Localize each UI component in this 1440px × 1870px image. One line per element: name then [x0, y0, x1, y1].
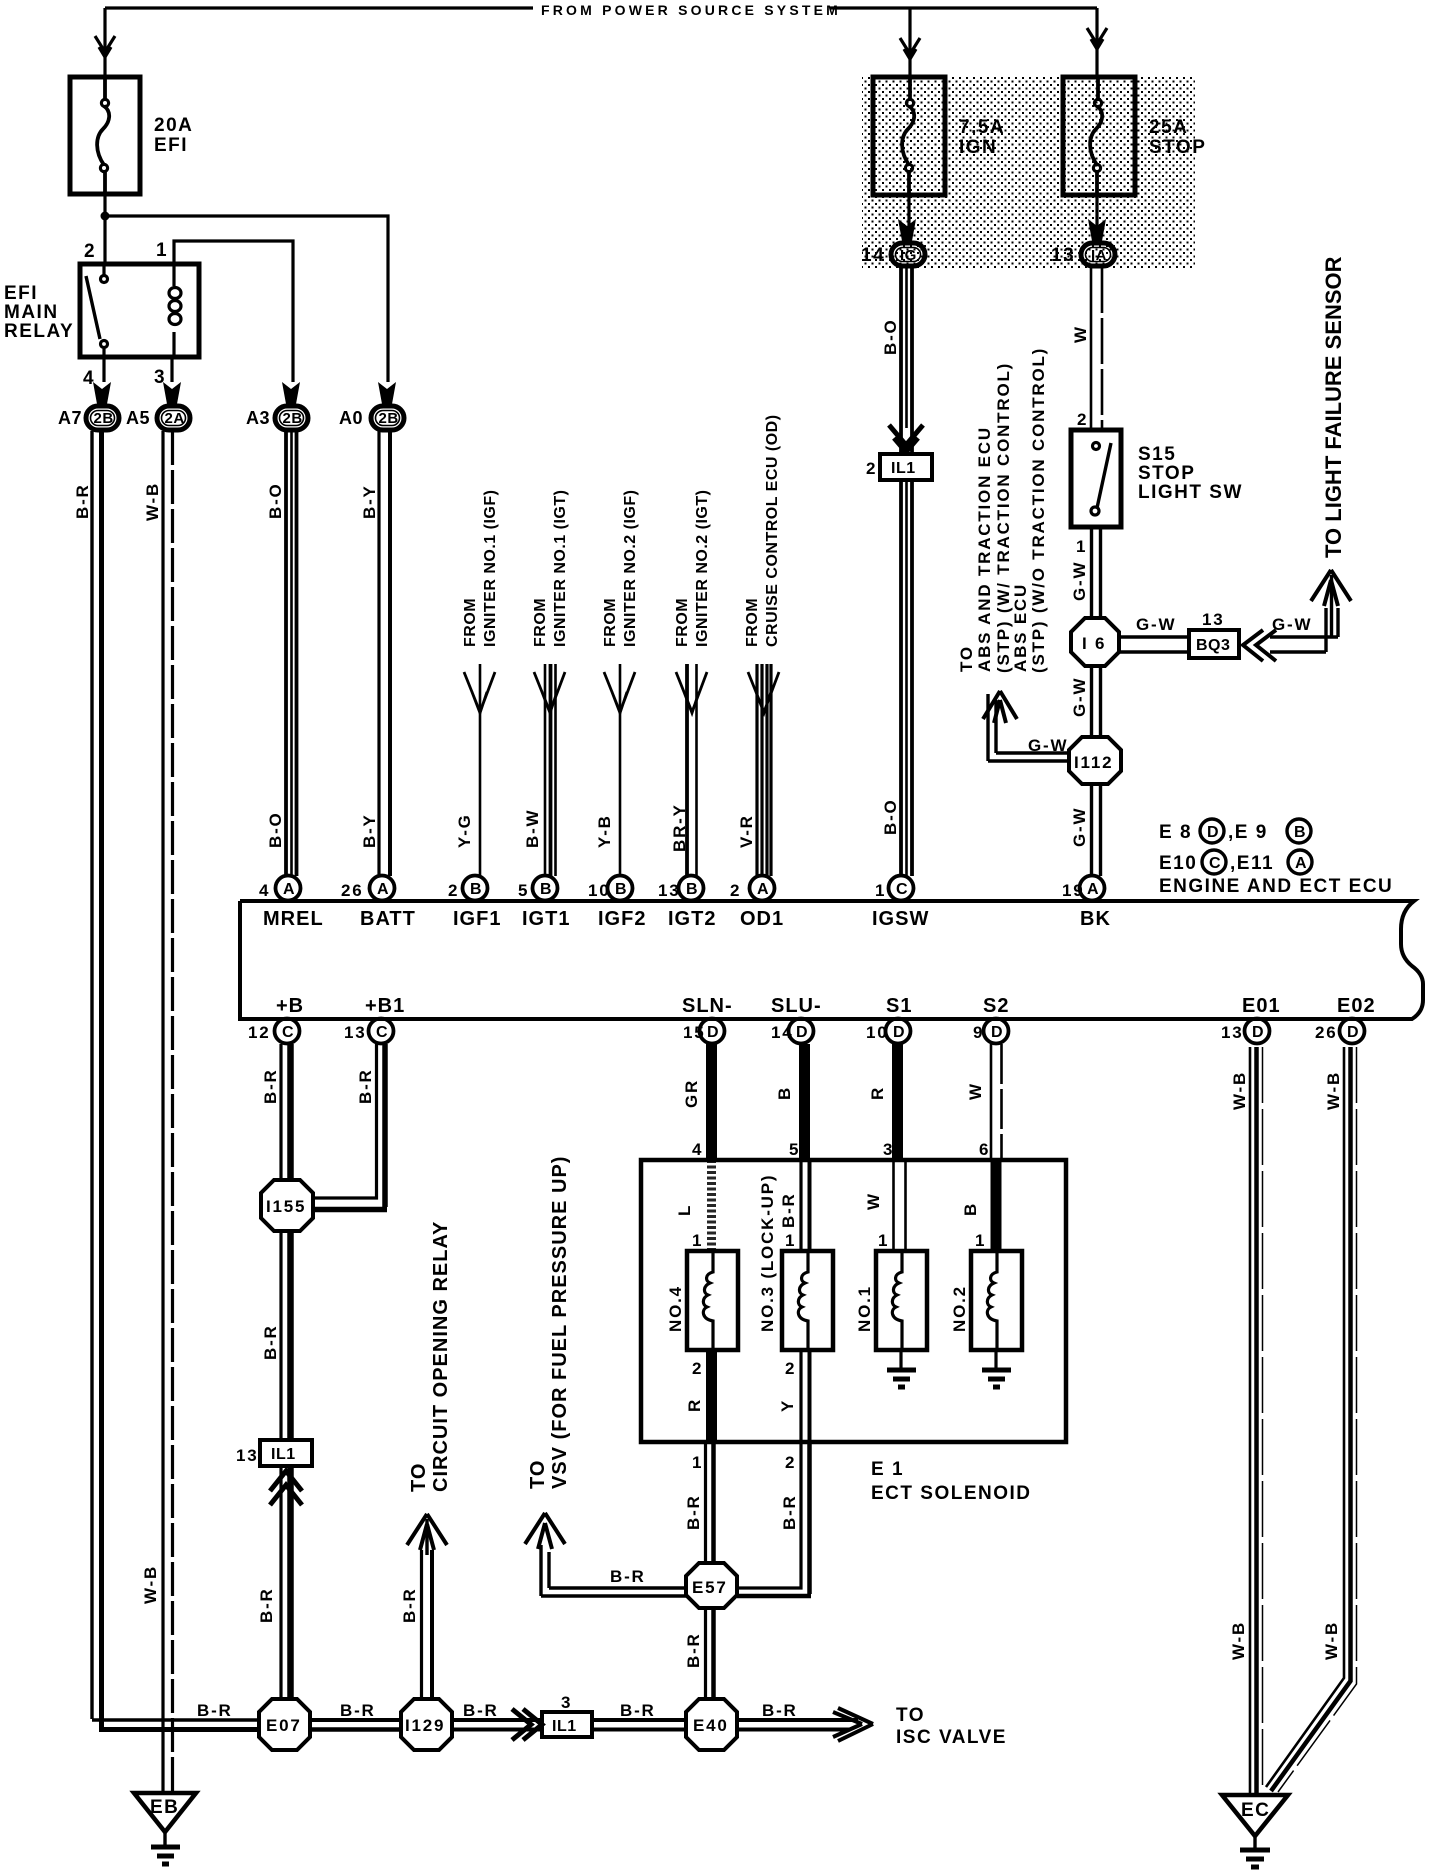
connector A7 2B: [58, 406, 119, 430]
svg-text:B-R: B-R: [257, 1587, 276, 1623]
svg-text:W: W: [966, 1082, 985, 1100]
svg-text:B: B: [961, 1202, 980, 1216]
label FROM IGNITER NO.1 (IGF): [462, 490, 499, 647]
svg-text:A: A: [283, 881, 295, 898]
svg-text:A0: A0: [339, 408, 363, 428]
junction E40: [686, 1699, 737, 1750]
ECU pin 15 D SLN-: [682, 995, 733, 1044]
ECU pin 5 B IGT1: [518, 876, 570, 931]
arrow into A3: [282, 382, 300, 404]
connector 14 IG: [861, 243, 925, 266]
wire from igniter no.2 (IGT) to IGT2: [676, 664, 707, 876]
svg-text:D: D: [796, 1024, 808, 1041]
svg-text:MREL: MREL: [263, 908, 324, 930]
svg-text:1: 1: [975, 1231, 986, 1250]
svg-text:TO: TO: [957, 645, 976, 672]
wire B: SLU- down into box to solenoid NO.3: [801, 1044, 810, 1251]
svg-text:E 8: E 8: [1159, 822, 1192, 843]
svg-text:5: 5: [789, 1140, 800, 1159]
svg-text:BQ3: BQ3: [1196, 637, 1230, 654]
relay EFI MAIN RELAY: [80, 240, 199, 389]
svg-text:STOP: STOP: [1138, 463, 1195, 484]
ground EB: [134, 1793, 196, 1864]
wire from cruise control ecu (OD) to OD1: [748, 664, 779, 876]
svg-text:1: 1: [156, 240, 168, 261]
junction I155: [261, 1180, 313, 1231]
label FROM CRUISE CONTROL ECU (OD): [744, 414, 781, 647]
svg-text:S1: S1: [886, 995, 912, 1017]
fuse 20A EFI: [70, 77, 140, 194]
label FROM IGNITER NO.1 (IGT): [532, 490, 569, 647]
svg-text:STOP: STOP: [1149, 137, 1206, 158]
label 25A STOP: [1149, 117, 1206, 158]
svg-text:IGNITER NO.2 (IGT): IGNITER NO.2 (IGT): [694, 490, 711, 647]
svg-text:E 1: E 1: [871, 1459, 904, 1480]
ECU pin 14 D SLU-: [771, 995, 822, 1044]
wire G-W: I6 to I112: [1092, 666, 1101, 737]
wire B-R: E57 down to E40: [706, 1608, 714, 1699]
arrow into 14 IG: [898, 219, 916, 241]
svg-text:7.5A: 7.5A: [959, 117, 1005, 138]
connector 2 IL1 (IGSW): [866, 454, 932, 480]
junction I129: [401, 1699, 452, 1750]
svg-text:B-R: B-R: [684, 1632, 703, 1668]
svg-text:B-R: B-R: [340, 1701, 376, 1720]
wire W-B: A5 down to ground EB: [163, 431, 173, 1792]
svg-text:W-B: W-B: [1229, 1621, 1248, 1660]
svg-text:A: A: [1087, 881, 1099, 898]
svg-text:5: 5: [518, 881, 529, 900]
svg-text:IGF2: IGF2: [598, 908, 646, 930]
svg-text:1: 1: [692, 1231, 703, 1250]
svg-text:1: 1: [878, 1231, 889, 1250]
svg-text:B-O: B-O: [266, 811, 285, 848]
svg-text:G-W: G-W: [1070, 677, 1089, 717]
svg-text:EFI: EFI: [4, 283, 38, 304]
svg-text:13: 13: [1051, 245, 1075, 266]
ECU pin 26 D E02: [1315, 995, 1376, 1044]
solenoid NO.1: [876, 1251, 927, 1350]
arrow into A5: [163, 382, 181, 404]
ECU pin 2 B IGF1: [448, 876, 501, 931]
wire B-Y: A0 down to ECU pin BATT: [379, 431, 390, 876]
wire R: NO.4 down out of box: [706, 1350, 717, 1442]
svg-text:ECT SOLENOID: ECT SOLENOID: [871, 1483, 1032, 1504]
ECU box ENGINE AND ECT ECU: [240, 901, 1423, 1019]
svg-text:20A: 20A: [154, 115, 193, 136]
svg-text:IL1: IL1: [552, 1718, 577, 1735]
label TO ISC VALVE: [896, 1705, 1007, 1748]
svg-text:B-R: B-R: [356, 1068, 375, 1104]
svg-text:E10: E10: [1159, 853, 1197, 874]
svg-text:BK: BK: [1080, 908, 1111, 930]
ECU pin 10 B IGF2: [588, 876, 646, 931]
svg-text:C: C: [1209, 855, 1221, 872]
svg-text:GR: GR: [682, 1079, 701, 1108]
svg-text:ENGINE AND ECT ECU: ENGINE AND ECT ECU: [1159, 876, 1393, 897]
svg-text:B: B: [1294, 824, 1306, 841]
svg-text:FROM: FROM: [532, 598, 549, 647]
svg-text:6: 6: [979, 1140, 990, 1159]
svg-text:D: D: [893, 1024, 905, 1041]
wire B-R: ECU +B down to junction I155: [281, 1044, 291, 1180]
svg-text:G-W: G-W: [1028, 736, 1068, 755]
svg-text:BATT: BATT: [360, 908, 416, 930]
svg-text:NO.1: NO.1: [855, 1285, 874, 1332]
svg-text:B-R: B-R: [463, 1701, 499, 1720]
wire GR: SLN- down into box to solenoid NO.4: [706, 1044, 717, 1251]
svg-text:B-R: B-R: [762, 1701, 798, 1720]
svg-text:B-R: B-R: [780, 1494, 799, 1530]
svg-text:IA: IA: [1091, 247, 1107, 264]
wire B-R: E40 right to ISC valve arrow: [737, 1708, 873, 1741]
wire B-R: E07 up to 13 IL1 with chevron arrow: [270, 1468, 302, 1699]
svg-text:26: 26: [1315, 1023, 1338, 1042]
wire from igniter no.1 (IGT) to IGT1: [534, 664, 565, 876]
svg-text:W-B: W-B: [143, 482, 162, 521]
wire B-R: I129 up to circuit opening relay arrow: [407, 1514, 447, 1699]
svg-text:2: 2: [730, 881, 741, 900]
svg-text:IGNITER NO.2 (IGF): IGNITER NO.2 (IGF): [622, 490, 639, 647]
svg-text:2B: 2B: [94, 410, 114, 427]
svg-text:BR-Y: BR-Y: [670, 803, 689, 852]
svg-text:VSV (FOR FUEL PRESSURE UP): VSV (FOR FUEL PRESSURE UP): [549, 1156, 571, 1489]
svg-text:B-R: B-R: [73, 483, 92, 519]
wire: STOP fuse to connector 13 IA: [1095, 195, 1098, 242]
svg-text:G-W: G-W: [1272, 615, 1312, 634]
svg-text:D: D: [1252, 1024, 1264, 1041]
wire G-W from light failure sensor into BQ3 with chevrons: [1243, 570, 1351, 661]
wire W-B: E01 down to ground EC: [1250, 1047, 1263, 1795]
svg-text:1: 1: [875, 881, 886, 900]
svg-text:R: R: [685, 1398, 704, 1412]
wire: relay pin3 to connector A5: [170, 357, 173, 382]
svg-text:SLU-: SLU-: [771, 995, 822, 1017]
svg-text:D: D: [1207, 824, 1219, 841]
svg-text:S15: S15: [1138, 444, 1176, 465]
svg-text:W-B: W-B: [1230, 1071, 1249, 1110]
svg-text:A: A: [377, 881, 389, 898]
label FROM IGNITER NO.2 (IGT): [674, 490, 711, 647]
wire: IGN fuse to connector 14 IG: [907, 195, 910, 242]
wire W: 13 IA down to switch S15: [1091, 267, 1102, 430]
wire B-R: E57 left to VSV arrow: [525, 1513, 686, 1596]
svg-text:2: 2: [785, 1453, 796, 1472]
svg-text:I 6: I 6: [1082, 634, 1106, 653]
svg-text:26: 26: [341, 881, 364, 900]
svg-text:2: 2: [84, 241, 96, 262]
svg-text:13: 13: [1202, 610, 1225, 629]
svg-text:IG: IG: [900, 247, 917, 264]
svg-text:OD1: OD1: [740, 908, 784, 930]
svg-text:IGT1: IGT1: [522, 908, 570, 930]
svg-text:I129: I129: [405, 1716, 445, 1735]
svg-text:L: L: [675, 1204, 694, 1216]
junction E57: [686, 1563, 737, 1608]
wire R: S1 down into box to solenoid NO.1: [894, 1044, 906, 1251]
svg-text:12: 12: [248, 1023, 271, 1042]
svg-text:,E11: ,E11: [1230, 853, 1274, 874]
svg-text:IL1: IL1: [891, 460, 916, 477]
svg-text:13: 13: [344, 1023, 367, 1042]
solenoid NO.3 (LOCK-UP): [782, 1251, 833, 1350]
svg-text:2: 2: [448, 881, 459, 900]
wire B-R: I129 to connector 3 IL1 with chevrons: [452, 1709, 542, 1740]
svg-text:EFI: EFI: [154, 135, 188, 156]
wire: relay pin4 to connector A7: [102, 357, 105, 382]
svg-text:W: W: [864, 1192, 883, 1210]
svg-text:I155: I155: [266, 1197, 306, 1216]
wire G-W: I112 down to ECU pin BK: [1092, 784, 1101, 876]
svg-text:G-W: G-W: [1070, 561, 1089, 601]
connector BQ3: [1189, 630, 1239, 658]
svg-text:ISC VALVE: ISC VALVE: [896, 1727, 1007, 1748]
fuse 7.5A IGN: [873, 77, 945, 195]
wire G-W: I6 to BQ3: [1119, 637, 1189, 652]
label TO CIRCUIT OPENING RELAY: [408, 1221, 452, 1492]
wire B-R: box exit down to E57: [706, 1442, 714, 1563]
svg-text:1: 1: [1076, 537, 1087, 556]
label E 1 ECT SOLENOID: [871, 1459, 1032, 1504]
wire B-O: A3 down to ECU pin MREL: [286, 431, 297, 876]
arrow into A0: [378, 382, 396, 404]
svg-text:NO.3 (LOCK-UP): NO.3 (LOCK-UP): [758, 1174, 777, 1332]
connector 13 IL1: [236, 1440, 312, 1466]
svg-text:I112: I112: [1074, 753, 1113, 772]
svg-text:W-B: W-B: [1324, 1071, 1343, 1110]
connector A0 2B: [339, 406, 404, 430]
svg-text:B-O: B-O: [881, 318, 900, 355]
ECT solenoid box E1: [641, 1160, 1066, 1442]
svg-text:B-R: B-R: [400, 1587, 419, 1623]
svg-text:13: 13: [1221, 1023, 1244, 1042]
svg-text:IGSW: IGSW: [872, 908, 929, 930]
ground below NO.2: [982, 1350, 1011, 1387]
wire B-R: ECU +B1 down and left to I155: [313, 1044, 387, 1210]
svg-text:1: 1: [785, 1231, 796, 1250]
svg-text:S2: S2: [983, 995, 1009, 1017]
label FROM IGNITER NO.2 (IGF): [602, 490, 639, 647]
wire Y: NO.3 down out of box: [801, 1350, 810, 1442]
svg-text:ABS ECU: ABS ECU: [1011, 583, 1030, 672]
svg-text:B-Y: B-Y: [360, 813, 379, 848]
svg-text:2: 2: [1077, 410, 1088, 429]
wire G-W: I112 left to ABS arrow: [983, 691, 1069, 761]
svg-text:IL1: IL1: [271, 1446, 296, 1463]
svg-text:A: A: [1295, 855, 1307, 872]
svg-text:3: 3: [561, 1693, 572, 1712]
wire B-O: 14 IG down to connector IL1: [889, 267, 923, 452]
svg-text:C: C: [896, 881, 908, 898]
ECU pin 9 D S2: [973, 995, 1009, 1044]
svg-text:CRUISE CONTROL ECU (OD): CRUISE CONTROL ECU (OD): [764, 414, 781, 647]
connector A5 2A: [126, 406, 190, 430]
svg-text:2: 2: [866, 459, 877, 478]
svg-text:TO: TO: [527, 1460, 549, 1489]
svg-text:LIGHT SW: LIGHT SW: [1138, 482, 1243, 503]
svg-text:E02: E02: [1337, 995, 1376, 1017]
label S15 STOP LIGHT SW: [1138, 444, 1243, 503]
svg-text:1: 1: [692, 1453, 703, 1472]
svg-text:TO: TO: [408, 1463, 430, 1492]
fuse 25A STOP: [1063, 77, 1135, 195]
svg-text:(STP) (W/O TRACTION CONTROL): (STP) (W/O TRACTION CONTROL): [1029, 347, 1048, 673]
svg-text:4: 4: [83, 368, 95, 389]
svg-text:TO LIGHT FAILURE SENSOR: TO LIGHT FAILURE SENSOR: [1321, 256, 1346, 558]
ECU pin 2 A OD1: [730, 876, 784, 931]
svg-text:2B: 2B: [283, 410, 303, 427]
label 7.5A IGN: [959, 117, 1005, 158]
svg-text:G-W: G-W: [1136, 615, 1176, 634]
svg-text:FROM: FROM: [674, 598, 691, 647]
svg-text:B-Y: B-Y: [360, 484, 379, 519]
svg-text:Y-G: Y-G: [455, 813, 474, 848]
svg-text:A7: A7: [58, 408, 82, 428]
svg-text:B: B: [470, 881, 482, 898]
svg-text:FROM: FROM: [744, 598, 761, 647]
svg-text:A3: A3: [246, 408, 270, 428]
connector 13 IA: [1051, 243, 1115, 266]
svg-text:D: D: [707, 1024, 719, 1041]
wire G-W: S15 to junction I6: [1092, 527, 1101, 618]
wire B-R: NO.3 exit down and left to E57: [737, 1442, 811, 1596]
svg-text:ABS AND TRACTION ECU: ABS AND TRACTION ECU: [975, 426, 994, 672]
wire B-R: 3 IL1 to E40: [592, 1720, 686, 1730]
svg-text:B-O: B-O: [881, 798, 900, 835]
svg-text:25A: 25A: [1149, 117, 1188, 138]
svg-text:E07: E07: [266, 1716, 302, 1735]
svg-text:IGT2: IGT2: [668, 908, 716, 930]
svg-text:B-R: B-R: [779, 1192, 798, 1228]
svg-text:B-O: B-O: [266, 482, 285, 519]
wire: junction to connector A0: [105, 216, 388, 382]
svg-text:4: 4: [692, 1140, 703, 1159]
wire B-O: IL1 down to ECU pin IGSW: [901, 480, 912, 876]
label E 8 D, E 9 B / E10 C, E11 A / ENGINE AND ECT ECU: [1159, 819, 1393, 897]
svg-text:3: 3: [883, 1140, 894, 1159]
svg-text:IGNITER NO.1 (IGT): IGNITER NO.1 (IGT): [552, 490, 569, 647]
svg-text:2: 2: [692, 1359, 703, 1378]
svg-text:NO.4: NO.4: [666, 1285, 685, 1332]
wire W-B: E02 down and diagonal to ground EC: [1266, 1047, 1357, 1792]
svg-text:R: R: [868, 1086, 887, 1100]
svg-text:V-R: V-R: [737, 814, 756, 848]
svg-text:D: D: [1347, 1024, 1359, 1041]
solenoid NO.2: [971, 1251, 1022, 1350]
wire B-R: A7 down, right along bottom to E07: [92, 431, 260, 1730]
svg-text:RELAY: RELAY: [4, 321, 74, 342]
svg-text:B: B: [540, 881, 552, 898]
svg-text:TO: TO: [896, 1705, 925, 1726]
svg-text:E01: E01: [1242, 995, 1281, 1017]
switch S15 stop light switch: [1071, 430, 1121, 527]
svg-text:W: W: [1071, 325, 1090, 343]
svg-text:B-R: B-R: [610, 1567, 646, 1586]
svg-text:B: B: [686, 881, 698, 898]
svg-text:C: C: [282, 1024, 294, 1041]
stipple background behind IGN/STOP fuses: [862, 77, 1195, 268]
svg-text:2A: 2A: [165, 410, 185, 427]
junction E07: [259, 1699, 310, 1750]
svg-text:4: 4: [259, 881, 270, 900]
wire B-R: I155 down to connector 13 IL1: [281, 1231, 291, 1440]
svg-text:W-B: W-B: [141, 1565, 160, 1604]
ECU pin 13 B IGT2: [658, 876, 716, 931]
ECU pin 1 C IGSW: [872, 876, 929, 931]
wire: top power rail left segment: [95, 8, 1107, 77]
svg-text:,E 9: ,E 9: [1228, 822, 1268, 843]
svg-text:Y-B: Y-B: [595, 814, 614, 848]
wire B-R: E07 to I129: [310, 1720, 401, 1730]
svg-text:B-R: B-R: [620, 1701, 656, 1720]
svg-text:IGF1: IGF1: [453, 908, 501, 930]
svg-text:B-R: B-R: [261, 1324, 280, 1360]
svg-text:MAIN: MAIN: [4, 302, 59, 323]
svg-text:CIRCUIT OPENING RELAY: CIRCUIT OPENING RELAY: [430, 1221, 452, 1492]
svg-text:EC: EC: [1241, 1800, 1270, 1821]
ECU pin 10 D S1: [866, 995, 912, 1044]
connector 3 IL1: [542, 1712, 592, 1737]
svg-text:FROM: FROM: [602, 598, 619, 647]
junction I6: [1071, 618, 1119, 666]
svg-text:13: 13: [236, 1446, 259, 1465]
svg-text:IGN: IGN: [959, 137, 997, 158]
wire: relay pin1 to connector A3: [174, 241, 293, 382]
ground below NO.1: [887, 1350, 916, 1387]
svg-text:E40: E40: [693, 1716, 729, 1735]
svg-text:E57: E57: [692, 1578, 728, 1597]
svg-text:A5: A5: [126, 408, 150, 428]
svg-text:SLN-: SLN-: [682, 995, 733, 1017]
svg-text:A: A: [757, 881, 769, 898]
svg-text:NO.2: NO.2: [950, 1285, 969, 1332]
ECU pin 13 D E01: [1221, 995, 1281, 1044]
svg-text:B: B: [775, 1086, 794, 1100]
ground EC: [1222, 1795, 1288, 1867]
label TO ABS AND TRACTION ECU (STP)...: [957, 347, 1048, 673]
svg-text:IGNITER NO.1 (IGF): IGNITER NO.1 (IGF): [482, 490, 499, 647]
svg-text:EB: EB: [150, 1797, 179, 1818]
label: EFI MAIN RELAY: [4, 283, 74, 342]
svg-text:+B1: +B1: [365, 995, 405, 1017]
ECU pin 19 A BK: [1062, 876, 1111, 931]
svg-text:Y: Y: [778, 1399, 797, 1412]
wire from igniter no.1 (IGF) to IGF1: [464, 664, 495, 876]
ECU pin 4 A MREL: [259, 876, 324, 931]
svg-text:G-W: G-W: [1070, 807, 1089, 847]
svg-text:B-R: B-R: [197, 1701, 233, 1720]
svg-text:FROM: FROM: [462, 598, 479, 647]
svg-text:FROM POWER SOURCE SYSTEM: FROM POWER SOURCE SYSTEM: [541, 2, 841, 18]
junction I112: [1069, 737, 1121, 784]
svg-text:C: C: [376, 1024, 388, 1041]
wire from igniter no.2 (IGF) to IGF2: [604, 664, 635, 876]
svg-text:+B: +B: [276, 995, 304, 1017]
solenoid NO.4: [687, 1251, 738, 1350]
ECU pin 13 C +B1: [344, 995, 405, 1044]
svg-text:2: 2: [785, 1359, 796, 1378]
svg-text:B-R: B-R: [261, 1068, 280, 1104]
svg-text:D: D: [991, 1024, 1003, 1041]
arrow into A7: [93, 382, 111, 404]
svg-text:14: 14: [861, 245, 885, 266]
arrow into 13 IA: [1088, 219, 1106, 241]
ECU pin 26 A BATT: [341, 876, 416, 931]
wire W: S2 down into box to solenoid NO.2: [991, 1044, 1002, 1251]
label TO VSV (FOR FUEL PRESSURE UP): [527, 1156, 571, 1489]
connector A3 2B: [246, 406, 308, 430]
svg-text:W-B: W-B: [1322, 1621, 1341, 1660]
